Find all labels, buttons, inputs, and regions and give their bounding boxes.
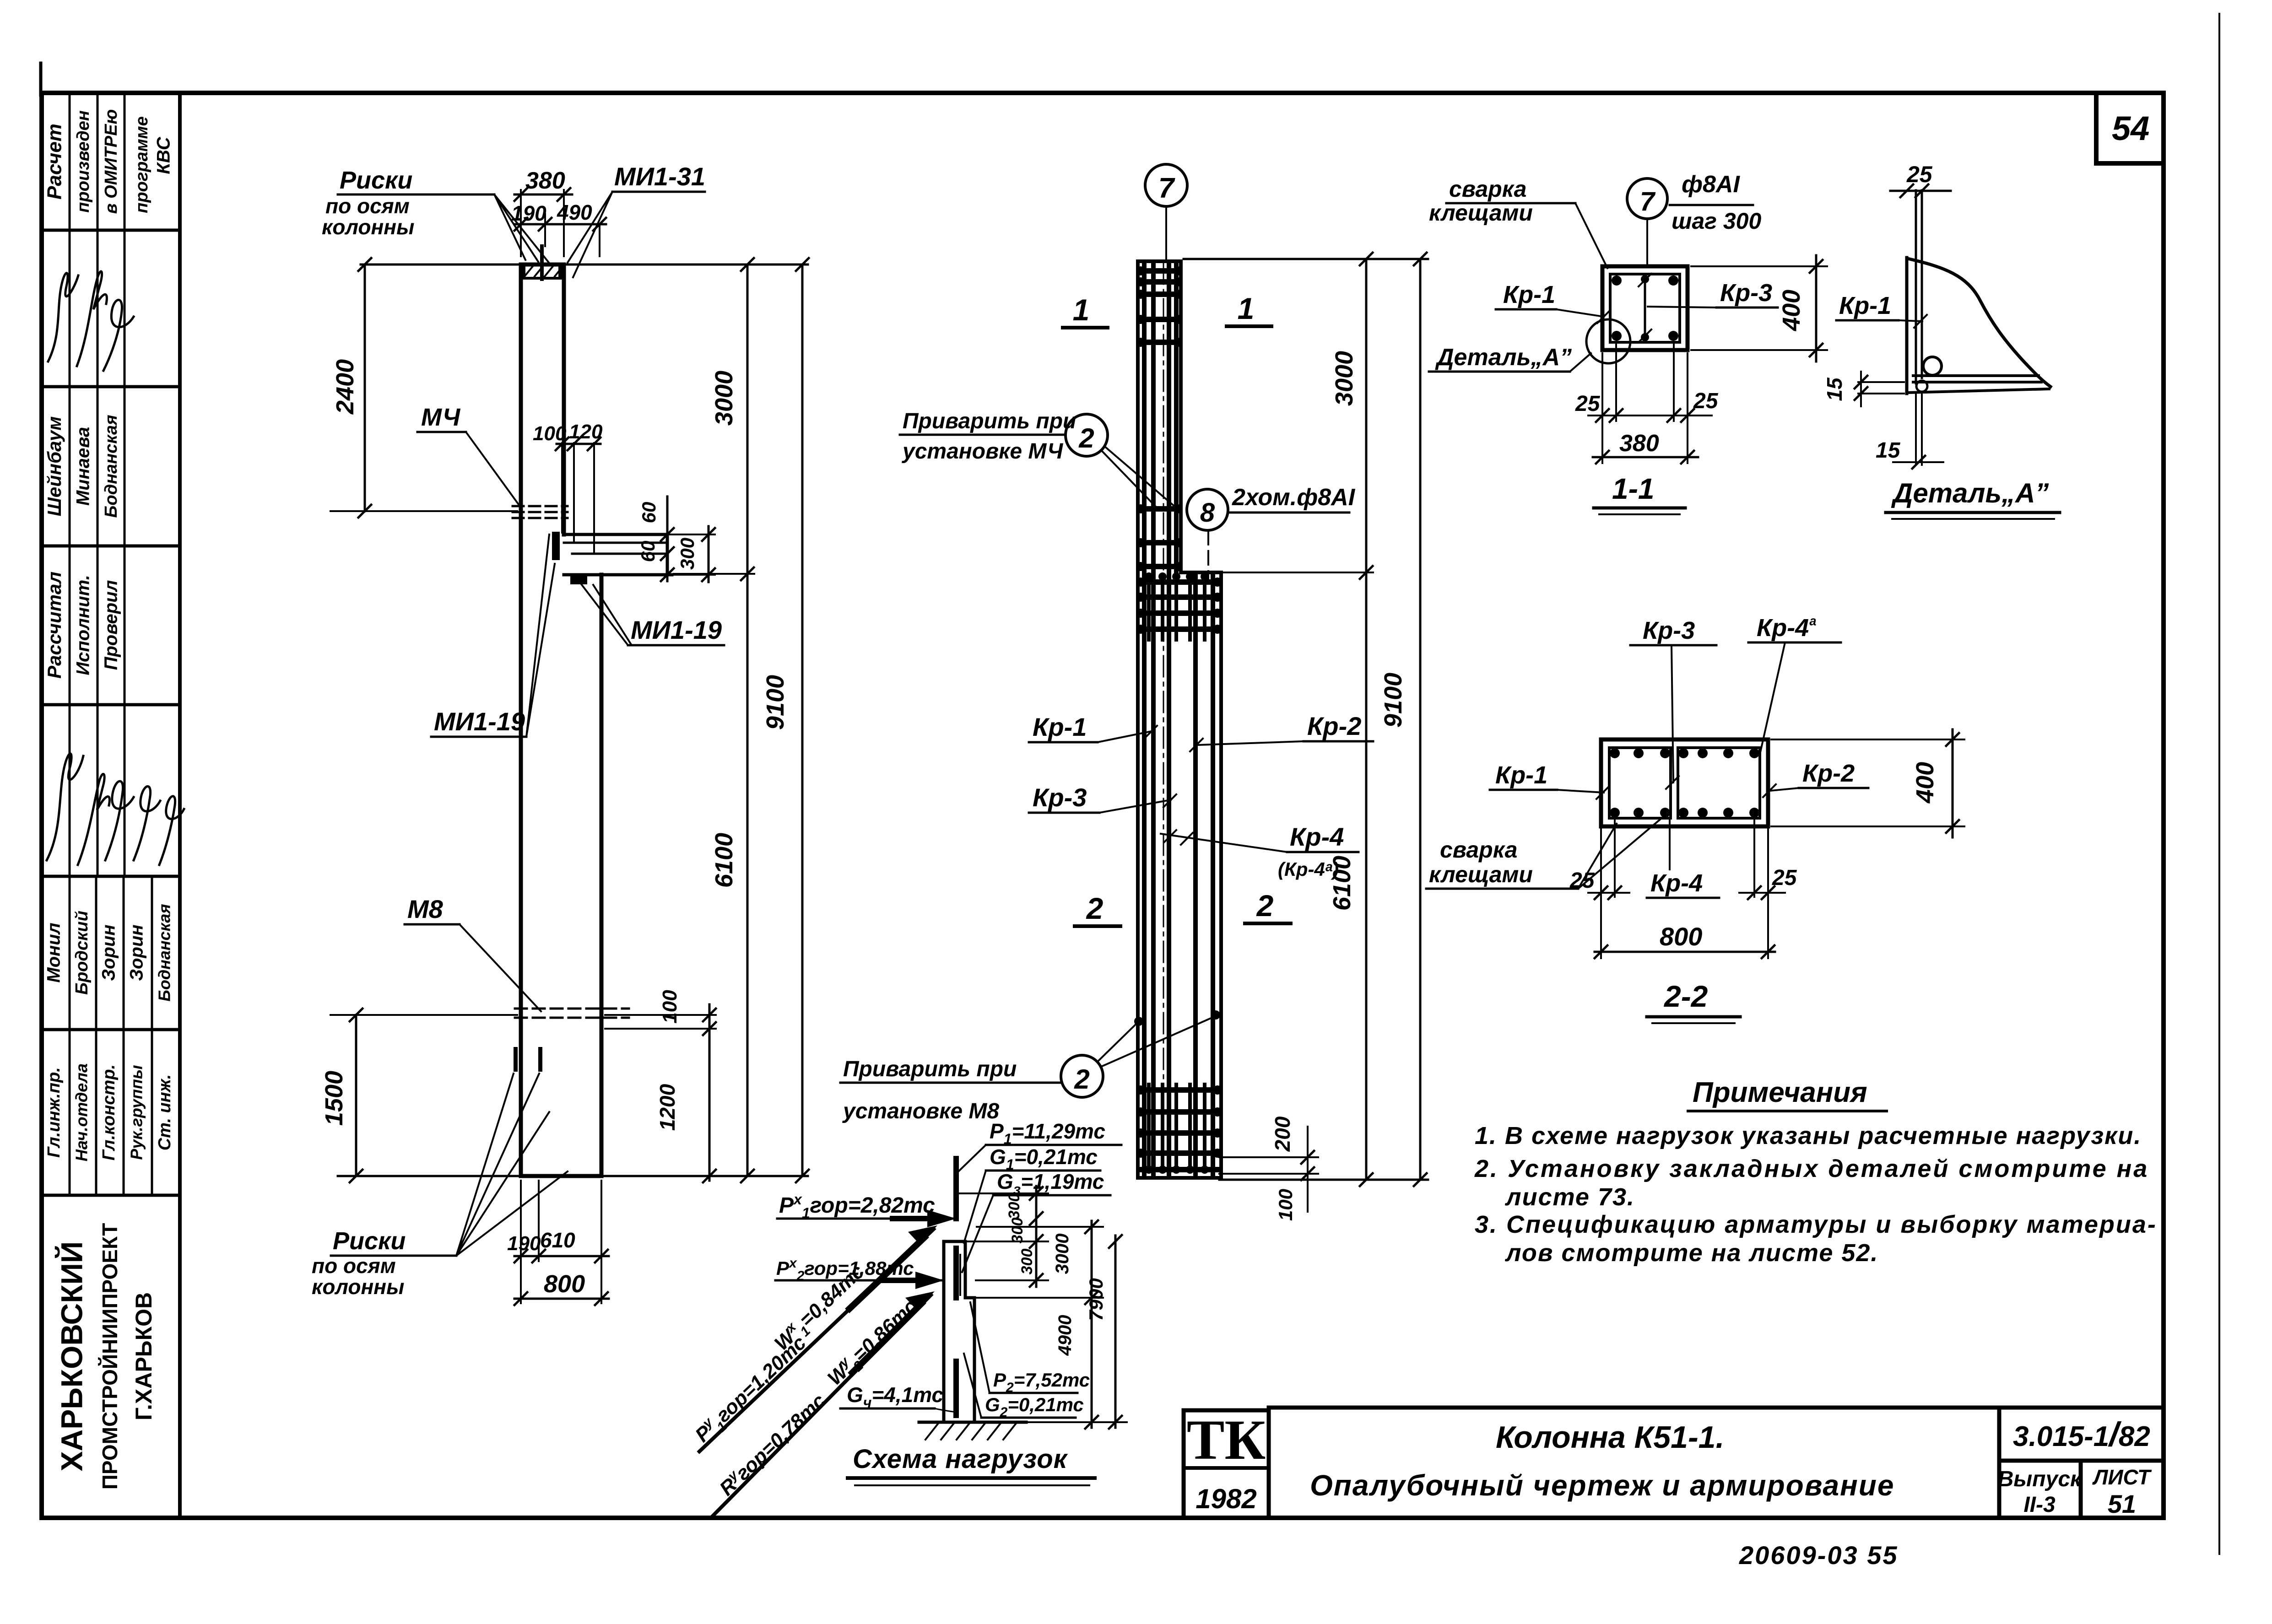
svg-text:установке М8: установке М8 bbox=[842, 1099, 999, 1123]
svg-text:Кр-1: Кр-1 bbox=[1839, 292, 1891, 319]
TK logo box bbox=[1184, 1410, 1269, 1518]
svg-text:в ОМИТРЕю: в ОМИТРЕю bbox=[102, 109, 121, 214]
svg-text:Кр-3: Кр-3 bbox=[1643, 617, 1695, 644]
svg-text:МИ1-31: МИ1-31 bbox=[614, 162, 705, 191]
dim 400 bbox=[1771, 739, 1964, 826]
svg-text:ПРОМСТРОЙНИИПРОЕКТ: ПРОМСТРОЙНИИПРОЕКТ bbox=[98, 1223, 122, 1490]
svg-text:Gч=4,1тс: Gч=4,1тс bbox=[847, 1383, 943, 1411]
svg-text:300: 300 bbox=[1018, 1249, 1036, 1275]
svg-text:клещами: клещами bbox=[1429, 862, 1533, 887]
svg-text:листе 73.: листе 73. bbox=[1504, 1183, 1635, 1211]
dims 25 25 bbox=[1588, 415, 1712, 416]
dim 380 top bbox=[521, 190, 564, 256]
svg-text:Примечания: Примечания bbox=[1693, 1077, 1867, 1108]
stamp row B signatures bbox=[48, 273, 78, 361]
bottom mesh bbox=[1139, 1090, 1218, 1170]
callout circle 2 lower / privarit M8 bbox=[1061, 1055, 1103, 1097]
dim 25 top bbox=[1890, 190, 1951, 192]
svg-text:3. Спецификацию арматуры и выб: 3. Спецификацию арматуры и выборку матер… bbox=[1475, 1211, 2157, 1238]
svg-text:Кр-1: Кр-1 bbox=[1033, 712, 1087, 741]
STAMP bbox=[42, 93, 184, 1518]
svg-text:2: 2 bbox=[1256, 889, 1274, 923]
svg-text:190: 190 bbox=[507, 1232, 541, 1255]
wind diagonal W1 bbox=[699, 1229, 934, 1451]
svg-text:2400: 2400 bbox=[331, 359, 359, 415]
svg-text:Шейнбаум: Шейнбаум bbox=[43, 416, 65, 517]
bar section circle bbox=[1923, 357, 1942, 375]
svg-text:Приварить при: Приварить при bbox=[903, 409, 1076, 433]
svg-text:Расчет: Расчет bbox=[43, 124, 66, 200]
LOADS bbox=[690, 1119, 1127, 1516]
svg-text:1. В схеме нагрузок указаны ра: 1. В схеме нагрузок указаны расчетные на… bbox=[1475, 1122, 2142, 1149]
svg-text:2-2: 2-2 bbox=[1663, 979, 1708, 1013]
svg-text:сварка: сварка bbox=[1440, 837, 1517, 863]
svg-text:Деталь„А”: Деталь„А” bbox=[1891, 478, 2049, 508]
SEC11 bbox=[1429, 171, 1827, 514]
svg-text:300: 300 bbox=[676, 538, 698, 570]
SEC22 bbox=[1426, 614, 1964, 1023]
wind diagonal W2 bbox=[713, 1295, 931, 1516]
torn edge curve bbox=[1910, 259, 2050, 387]
column outline bbox=[521, 264, 601, 1176]
svg-text:1982: 1982 bbox=[1196, 1484, 1256, 1514]
dim 2400 bbox=[364, 264, 366, 511]
svg-text:2: 2 bbox=[1078, 423, 1094, 453]
svg-text:колонны: колонны bbox=[312, 1275, 404, 1299]
svg-text:380: 380 bbox=[525, 167, 565, 194]
svg-text:3000: 3000 bbox=[710, 371, 738, 426]
svg-text:Боднанская: Боднанская bbox=[155, 904, 174, 1001]
circle 7 with f8AT bbox=[1627, 178, 1667, 219]
svg-text:25: 25 bbox=[1569, 869, 1595, 893]
svg-text:Зорин: Зорин bbox=[99, 924, 119, 981]
svg-text:3.015-1/82: 3.015-1/82 bbox=[2013, 1415, 2150, 1453]
svg-text:2хом.ф8АI: 2хом.ф8АI bbox=[1232, 484, 1356, 511]
MCH embed dashes bbox=[513, 506, 568, 518]
svg-text:Боднанская: Боднанская bbox=[102, 415, 121, 518]
console bbox=[564, 534, 672, 575]
svg-text:9100: 9100 bbox=[1379, 673, 1407, 728]
svg-text:II-3: II-3 bbox=[2023, 1493, 2056, 1517]
console dim 300 bbox=[669, 534, 715, 575]
stamp row E signatures bbox=[47, 754, 83, 860]
svg-text:Кр-4: Кр-4 bbox=[1290, 822, 1344, 851]
axis circle 7 bbox=[1145, 164, 1187, 206]
title block frame bbox=[1269, 1408, 2164, 1518]
stamp column dividers mid (5 cols) bbox=[70, 876, 152, 1195]
console mesh bbox=[1139, 582, 1218, 629]
DETA bbox=[1823, 162, 2060, 519]
svg-text:произведен: произведен bbox=[74, 110, 93, 212]
svg-text:Кр-2: Кр-2 bbox=[1802, 760, 1855, 787]
svg-text:Зорин: Зорин bbox=[127, 924, 147, 981]
section 2-2 stirrup right cell bbox=[1678, 748, 1760, 818]
svg-text:МИ1-19: МИ1-19 bbox=[434, 707, 525, 736]
right dim lines of cage bbox=[1184, 258, 1428, 260]
svg-text:установке МЧ: установке МЧ bbox=[902, 439, 1063, 464]
svg-text:7: 7 bbox=[1640, 187, 1656, 216]
svg-text:120: 120 bbox=[569, 421, 603, 443]
svg-text:54: 54 bbox=[2112, 109, 2149, 147]
svg-text:М8: М8 bbox=[407, 895, 444, 923]
section 1-1 stirrup bbox=[1610, 274, 1680, 342]
svg-text:60: 60 bbox=[637, 541, 659, 562]
svg-text:800: 800 bbox=[1660, 922, 1702, 951]
dim 400 bbox=[1691, 266, 1827, 350]
svg-text:20609-03 55: 20609-03 55 bbox=[1739, 1541, 1899, 1570]
svg-text:Проверил: Проверил bbox=[101, 580, 121, 670]
svg-text:Риски: Риски bbox=[340, 167, 412, 194]
cage outline bbox=[1138, 261, 1221, 1178]
svg-text:800: 800 bbox=[544, 1270, 585, 1298]
svg-text:программе: программе bbox=[132, 116, 151, 213]
dim 300 300 300 column bbox=[958, 1193, 1048, 1280]
dim 190 490 bbox=[545, 214, 600, 256]
dim 7900 bbox=[1114, 1236, 1117, 1428]
svg-text:25: 25 bbox=[1772, 866, 1797, 890]
LEFTDRAW bbox=[312, 162, 809, 1305]
svg-text:400: 400 bbox=[1778, 290, 1805, 331]
svg-text:Деталь„А”: Деталь„А” bbox=[1435, 344, 1572, 371]
riska ticks bottom bbox=[514, 1047, 518, 1072]
svg-text:2: 2 bbox=[1074, 1064, 1089, 1095]
page number box 54 bbox=[2096, 93, 2164, 163]
svg-text:МЧ: МЧ bbox=[421, 404, 461, 431]
svg-text:6100: 6100 bbox=[710, 833, 738, 888]
dims 3000 4900 bbox=[977, 1227, 1103, 1298]
dims 100 1200 right bbox=[605, 1015, 716, 1029]
stamp outer column bbox=[178, 93, 182, 1518]
section 2-2 bar dots bbox=[1610, 748, 1759, 818]
svg-text:Выпуск: Выпуск bbox=[1998, 1467, 2083, 1491]
callout circle 8 / 2xom f8AT bbox=[1187, 489, 1228, 530]
svg-text:Опалубочный чертеж и армирован: Опалубочный чертеж и армирование bbox=[1310, 1469, 1894, 1502]
svg-text:1200: 1200 bbox=[655, 1084, 679, 1131]
tie end dots bbox=[1134, 266, 1222, 1174]
svg-text:200: 200 bbox=[1271, 1116, 1294, 1152]
svg-text:25: 25 bbox=[1906, 162, 1933, 187]
callout circle 2 upper / privarit MCH bbox=[1066, 414, 1108, 456]
svg-text:610: 610 bbox=[540, 1228, 575, 1252]
svg-text:Кр-1: Кр-1 bbox=[1503, 281, 1555, 308]
svg-text:60: 60 bbox=[638, 502, 660, 523]
svg-text:25: 25 bbox=[1575, 392, 1601, 416]
MI1-19 plate lower (filled) bbox=[570, 576, 587, 584]
cage axis line bbox=[1163, 263, 1164, 1171]
svg-text:490: 490 bbox=[557, 200, 592, 224]
svg-text:8: 8 bbox=[1200, 498, 1215, 528]
column head cap bbox=[521, 277, 564, 280]
svg-text:Риски: Риски bbox=[333, 1227, 406, 1255]
svg-text:25: 25 bbox=[1693, 389, 1719, 413]
svg-text:МИ1-19: МИ1-19 bbox=[631, 615, 722, 644]
svg-text:100: 100 bbox=[1275, 1189, 1296, 1221]
column axis force strokes bbox=[953, 1159, 959, 1415]
ground line bbox=[919, 1421, 1026, 1424]
svg-text:Гл.инж.пр.: Гл.инж.пр. bbox=[44, 1067, 64, 1158]
Kr-1 bar double line bbox=[1916, 190, 1922, 383]
NOTES bbox=[1474, 1077, 2157, 1267]
svg-text:КВС: КВС bbox=[154, 136, 174, 174]
svg-text:Ст. инж.: Ст. инж. bbox=[155, 1074, 174, 1151]
cage top ties bbox=[1140, 271, 1179, 342]
svg-text:ТК: ТК bbox=[1187, 1408, 1266, 1471]
dim 15 plate bbox=[1858, 382, 1904, 394]
svg-text:сварка: сварка bbox=[1449, 176, 1526, 202]
svg-text:Рассчитал: Рассчитал bbox=[43, 572, 65, 679]
svg-text:300: 300 bbox=[1009, 1218, 1026, 1244]
svg-text:лов смотрите на листе 52.: лов смотрите на листе 52. bbox=[1504, 1239, 1878, 1267]
svg-text:Колонна К51-1.: Колонна К51-1. bbox=[1496, 1420, 1724, 1455]
svg-text:по осям: по осям bbox=[325, 194, 410, 218]
svg-text:Приварить при: Приварить при bbox=[843, 1057, 1017, 1081]
svg-text:7: 7 bbox=[1158, 173, 1175, 204]
stamp row lines bbox=[42, 230, 180, 1195]
svg-text:15: 15 bbox=[1876, 438, 1901, 463]
svg-text:Монил: Монил bbox=[44, 923, 64, 982]
svg-text:Кр-1: Кр-1 bbox=[1495, 761, 1547, 789]
svg-text:3000: 3000 bbox=[1331, 351, 1358, 406]
console dims 60 60 bbox=[666, 496, 669, 581]
svg-text:2. Установку закладных деталей: 2. Установку закладных деталей смотрите … bbox=[1474, 1155, 2149, 1182]
svg-text:Нач.отдела: Нач.отдела bbox=[72, 1063, 91, 1161]
svg-text:1: 1 bbox=[1238, 291, 1255, 325]
console dims 100 120 bbox=[562, 443, 594, 552]
svg-text:2: 2 bbox=[1086, 891, 1104, 925]
section 1-1 Kr-3 bar bbox=[1644, 274, 1646, 342]
dim 15 bar end bbox=[1916, 394, 1922, 465]
head axis tick bbox=[540, 246, 544, 279]
extension lines below bbox=[1602, 344, 1688, 463]
svg-text:9100: 9100 bbox=[762, 675, 789, 730]
svg-text:1-1: 1-1 bbox=[1612, 472, 1655, 505]
bottom dims 190 610 800 bbox=[521, 1181, 601, 1303]
svg-text:Рук.группы: Рук.группы bbox=[127, 1065, 146, 1160]
right dim lines of left view bbox=[361, 264, 808, 266]
extension lines bbox=[1601, 819, 1768, 958]
svg-text:300: 300 bbox=[1006, 1193, 1023, 1219]
svg-text:3000: 3000 bbox=[1052, 1234, 1072, 1274]
MI1-19 plate upper (filled) bbox=[552, 532, 560, 560]
dim 800 bbox=[1595, 951, 1775, 953]
section 2-2 stirrup left cell bbox=[1609, 748, 1671, 818]
svg-text:шаг 300: шаг 300 bbox=[1672, 208, 1761, 234]
bottom dims 200 100 bbox=[1219, 1157, 1318, 1174]
svg-text:колонны: колонны bbox=[322, 215, 414, 239]
svg-text:ф8АI: ф8АI bbox=[1682, 171, 1740, 198]
svg-text:Кр-4: Кр-4 bbox=[1650, 869, 1703, 897]
svg-text:380: 380 bbox=[1619, 430, 1659, 457]
bottom plate bbox=[1907, 376, 2049, 393]
svg-text:Исполнит.: Исполнит. bbox=[73, 575, 93, 675]
section 2-2 outer rect bbox=[1601, 739, 1768, 826]
svg-text:100: 100 bbox=[659, 990, 681, 1024]
svg-text:Минаева: Минаева bbox=[73, 427, 93, 506]
svg-text:100: 100 bbox=[533, 422, 567, 445]
svg-text:по осям: по осям bbox=[312, 1254, 396, 1278]
svg-text:1500: 1500 bbox=[320, 1071, 348, 1126]
svg-text:51: 51 bbox=[2108, 1489, 2136, 1518]
svg-text:6100: 6100 bbox=[1328, 856, 1356, 911]
cage longitudinal bars bbox=[1144, 263, 1176, 1176]
svg-text:1: 1 bbox=[1073, 293, 1090, 327]
dim 1500 bbox=[355, 1015, 357, 1176]
svg-text:Г.ХАРЬКОВ: Г.ХАРЬКОВ bbox=[131, 1292, 157, 1420]
svg-text:Кр-3: Кр-3 bbox=[1033, 783, 1087, 812]
section 1-1 outer square bbox=[1602, 266, 1688, 350]
svg-text:ХАРЬКОВСКИЙ: ХАРЬКОВСКИЙ bbox=[54, 1241, 88, 1472]
svg-text:Бродский: Бродский bbox=[72, 911, 92, 995]
svg-text:400: 400 bbox=[1911, 762, 1939, 804]
stamp column dividers upper (4 cols) bbox=[70, 93, 124, 876]
svg-text:4900: 4900 bbox=[1055, 1315, 1075, 1356]
detail A callout circle bbox=[1586, 319, 1630, 363]
svg-text:Кр-2: Кр-2 bbox=[1307, 712, 1361, 740]
cage mid ties bbox=[1140, 509, 1179, 567]
svg-text:Гл.констр.: Гл.констр. bbox=[99, 1064, 119, 1160]
svg-text:Схема нагрузок: Схема нагрузок bbox=[853, 1444, 1068, 1474]
M8 embed dashes bbox=[515, 1009, 629, 1018]
svg-text:15: 15 bbox=[1823, 377, 1846, 401]
svg-text:7900: 7900 bbox=[1085, 1278, 1107, 1321]
TITLEBLOCK bbox=[1184, 1408, 2164, 1570]
svg-text:Кр-4ᵃ: Кр-4ᵃ bbox=[1757, 614, 1816, 642]
section 1-1 corner bars bbox=[1612, 275, 1678, 341]
mini column outline bbox=[944, 1241, 974, 1422]
concrete corner edge bbox=[1905, 258, 1909, 394]
dims 25 25 bbox=[1588, 892, 1629, 894]
dim 380 bbox=[1593, 456, 1698, 459]
svg-text:G1=0,21тс: G1=0,21тс bbox=[990, 1145, 1098, 1173]
MIDDRAW bbox=[840, 164, 1428, 1221]
svg-text:Кр-3: Кр-3 bbox=[1720, 279, 1772, 307]
svg-text:ЛИСТ: ЛИСТ bbox=[2092, 1465, 2152, 1489]
